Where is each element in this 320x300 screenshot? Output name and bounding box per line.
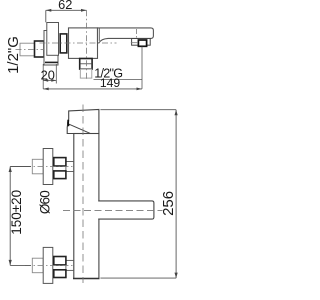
lever knob (top view) <box>47 23 59 56</box>
body block (top view) <box>69 28 98 59</box>
svg-text:150±20: 150±20 <box>9 190 24 235</box>
shower outlet threaded stub (top view) <box>80 69 92 78</box>
dim 150±20 extension top <box>10 166 31 168</box>
lower inlet centerline <box>25 264 74 266</box>
spout arm centerline <box>63 210 163 212</box>
upper inlet hex nut upper <box>54 158 66 166</box>
dim 256 extension top <box>100 109 176 111</box>
inlet nut (top view) <box>35 41 45 57</box>
svg-text:1/2"G: 1/2"G <box>5 36 22 74</box>
centerline body axis (top view horizontal) <box>40 42 117 44</box>
lower inlet hex nut upper <box>54 257 66 265</box>
upper inlet flange <box>43 149 53 185</box>
dim 256 dimension line <box>175 110 177 278</box>
lower inlet stub <box>66 260 74 270</box>
dim 62 dimension line <box>46 10 87 22</box>
dim 256 arrows <box>175 110 178 116</box>
dim 150±20 extension bottom <box>10 264 31 266</box>
aerator centre tick <box>131 42 137 44</box>
dim 149 dimension line <box>43 88 142 90</box>
lower inlet pipe <box>32 258 43 273</box>
svg-text:Ø60: Ø60 <box>37 191 52 214</box>
upper inlet hex nut lower <box>54 171 66 179</box>
body column (side view) <box>74 134 99 279</box>
lower inlet hex nut lower <box>54 270 66 278</box>
centerline pipe axis (top view) <box>16 49 45 51</box>
spout arm (side view) white fill erasing column edge <box>97 202 154 219</box>
column axis dash-dot (side view) <box>82 105 84 284</box>
aerator axis dash-dot <box>136 29 138 39</box>
dim 150±20 dimension line <box>9 167 11 266</box>
upper inlet centerline <box>25 166 74 168</box>
spout arm outline <box>98 201 154 219</box>
dim 20 arrows <box>43 79 48 82</box>
wall flange (top view) <box>44 31 58 66</box>
dim 256 extension bottom <box>100 277 176 279</box>
handle lever (side view) <box>67 110 99 134</box>
inlet pipe (top view) <box>20 43 35 56</box>
shower outlet nut flat line <box>80 63 92 65</box>
upper inlet stub <box>66 162 74 172</box>
svg-text:149: 149 <box>100 76 121 90</box>
handle knob tip thick hook <box>67 120 69 127</box>
dim 20 extension lines <box>43 64 56 89</box>
svg-text:62: 62 <box>58 0 72 12</box>
upper inlet pipe <box>32 159 43 174</box>
aerator inner (top view) <box>138 40 146 46</box>
aerator outer (top view) <box>132 39 151 46</box>
connection nut (top view) <box>60 34 67 53</box>
lower inlet flange <box>43 247 53 283</box>
dim 149 arrows <box>43 88 49 91</box>
dim 150±20 arrows <box>9 167 12 173</box>
centerline shower outlet axis (vertical dash-dot) <box>86 10 88 80</box>
flange bottom thick edge (top view) <box>45 61 58 63</box>
svg-text:20: 20 <box>41 67 55 82</box>
dim 149 extension right <box>141 47 143 89</box>
body column bottom thick edge <box>73 278 100 280</box>
svg-text:256: 256 <box>160 191 177 216</box>
shower outlet nut (top view) <box>80 59 92 70</box>
dim 62 arrows <box>46 9 52 12</box>
handle lever underside diagonal <box>69 124 90 133</box>
spout (top view) <box>98 28 154 43</box>
spout-body joint line <box>98 28 100 41</box>
